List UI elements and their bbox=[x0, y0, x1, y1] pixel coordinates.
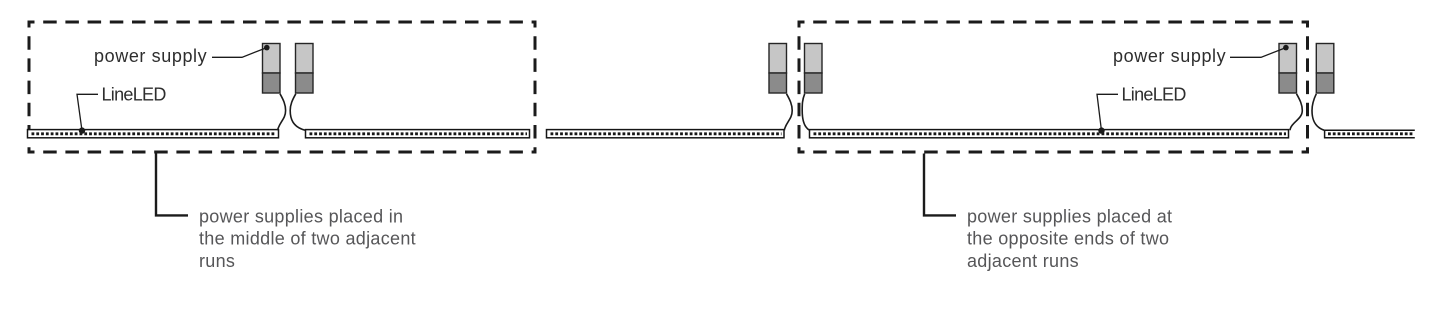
svg-text:adjacent runs: adjacent runs bbox=[967, 251, 1079, 271]
svg-text:power supply: power supply bbox=[94, 46, 207, 66]
svg-text:power supplies placed in: power supplies placed in bbox=[199, 206, 403, 226]
svg-text:LineLED: LineLED bbox=[102, 85, 167, 105]
svg-text:power supplies placed at: power supplies placed at bbox=[967, 206, 1172, 226]
svg-text:the middle of two adjacent: the middle of two adjacent bbox=[199, 229, 416, 249]
svg-text:LineLED: LineLED bbox=[1122, 85, 1187, 105]
svg-text:runs: runs bbox=[199, 251, 235, 271]
svg-text:the opposite ends of two: the opposite ends of two bbox=[967, 229, 1169, 249]
svg-text:power supply: power supply bbox=[1113, 46, 1226, 66]
